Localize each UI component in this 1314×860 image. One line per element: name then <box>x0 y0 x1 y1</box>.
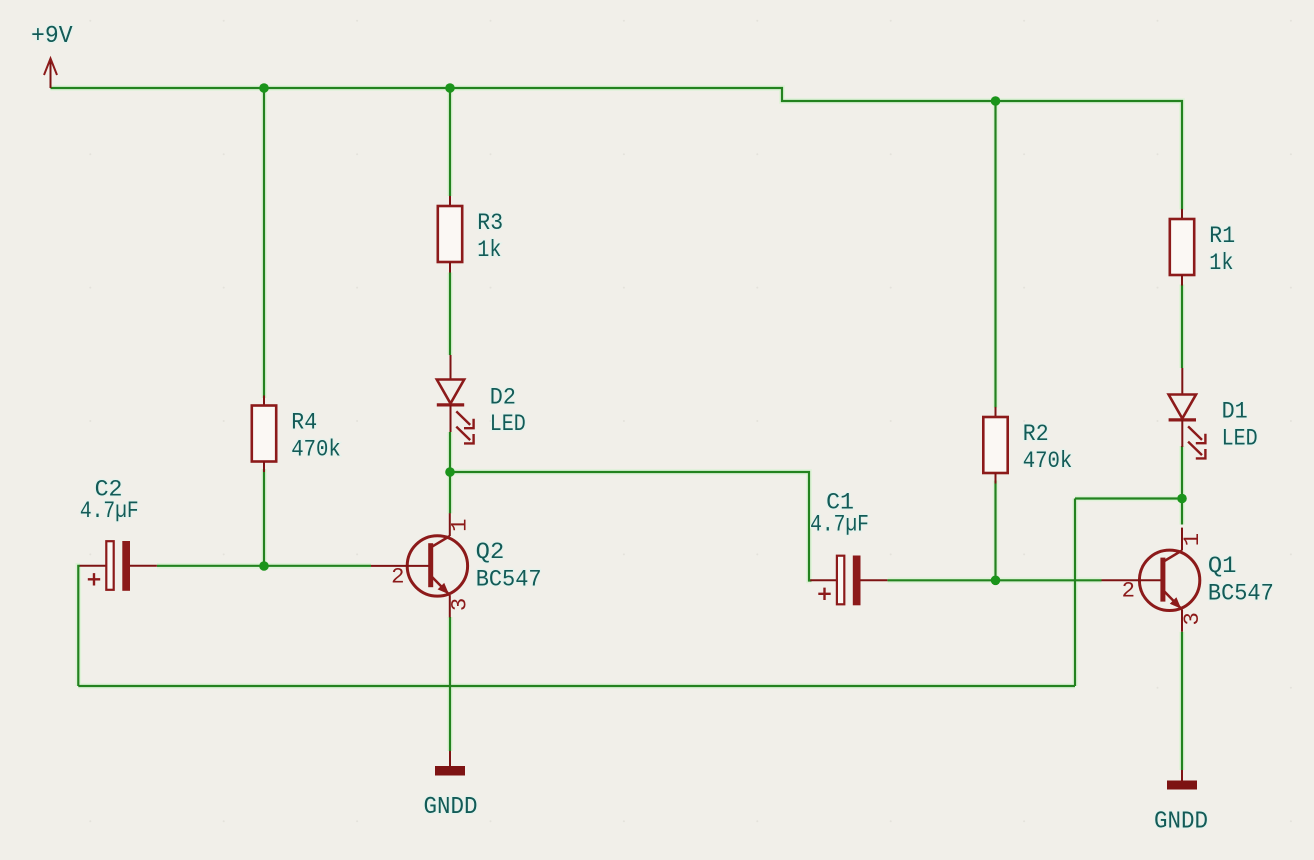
svg-text:BC547: BC547 <box>476 566 542 593</box>
junction Q2 base node <box>259 561 269 571</box>
wire R2 to Q1 base node <box>994 481 996 581</box>
junction VCC/R3 <box>445 83 455 93</box>
capacitor C1 (polarized) <box>810 489 887 605</box>
capacitor C2 (polarized) <box>80 477 157 591</box>
resistor R4 <box>252 396 341 473</box>
wire R3 to D2 <box>449 273 451 356</box>
wire VCC to R4 <box>263 88 265 398</box>
svg-text:3: 3 <box>1179 612 1205 625</box>
svg-text:LED: LED <box>490 411 526 438</box>
svg-text:GNDD: GNDD <box>1154 809 1208 836</box>
svg-text:+9V: +9V <box>31 23 73 50</box>
svg-text:470k: 470k <box>1023 448 1073 475</box>
svg-text:R3: R3 <box>477 210 503 237</box>
svg-text:LED: LED <box>1222 425 1258 452</box>
wire VCC to R3 <box>449 88 451 196</box>
LED D1 <box>1169 368 1258 458</box>
LED D2 <box>437 355 526 443</box>
wire C1 to Q1 base <box>888 579 1102 581</box>
svg-text:4.7µF: 4.7µF <box>810 511 869 538</box>
wire Q2 emitter to ground <box>449 617 451 751</box>
wire bottom feedback <box>78 685 1075 687</box>
wire R1 to D1 <box>1181 285 1183 369</box>
svg-text:GNDD: GNDD <box>424 794 478 821</box>
resistor R3 <box>438 196 503 273</box>
svg-text:R1: R1 <box>1209 223 1235 250</box>
junction Q2 collector node <box>445 467 455 477</box>
ground GNDD left <box>424 751 478 821</box>
svg-text:2: 2 <box>1122 578 1135 604</box>
wire D2 to Q2 collector node <box>449 432 451 513</box>
svg-text:2: 2 <box>391 563 404 589</box>
svg-text:1k: 1k <box>477 237 501 264</box>
svg-text:470k: 470k <box>291 437 341 464</box>
wire Q2 collector node to C1 <box>450 472 812 581</box>
wire C2 left plate down <box>78 566 80 686</box>
svg-text:1k: 1k <box>1209 250 1233 277</box>
wire VCC to R2 <box>994 101 996 408</box>
junction VCC/R4 <box>259 83 269 93</box>
power +9V <box>31 23 73 88</box>
wire C2 to Q2 base <box>157 565 371 567</box>
resistor R1 <box>1170 209 1235 286</box>
svg-text:4.7µF: 4.7µF <box>80 498 139 525</box>
svg-text:R4: R4 <box>291 410 317 437</box>
svg-text:D1: D1 <box>1222 399 1248 426</box>
svg-text:1: 1 <box>447 519 473 532</box>
junction Q1 base node <box>991 576 1001 586</box>
svg-text:D2: D2 <box>490 384 516 411</box>
svg-text:1: 1 <box>1179 533 1205 546</box>
resistor R2 <box>983 407 1072 484</box>
wire VCC rail top <box>51 88 1183 210</box>
wire R4 to Q2 base node <box>263 469 265 566</box>
svg-text:3: 3 <box>447 598 473 611</box>
svg-text:BC547: BC547 <box>1208 581 1274 608</box>
wire glow underlay <box>51 88 1183 770</box>
junction VCC/R2 <box>991 96 1001 106</box>
wire feedback to Q1 collector node <box>1075 497 1182 499</box>
transistor Q2 (NPN BC547) <box>371 513 542 617</box>
transistor Q1 (NPN BC547) <box>1102 528 1274 632</box>
wire feedback up <box>1074 499 1076 687</box>
svg-text:Q2: Q2 <box>476 539 505 566</box>
svg-text:R2: R2 <box>1023 421 1049 448</box>
wire Q1 emitter to ground <box>1181 632 1183 770</box>
junction Q1 collector node <box>1177 494 1187 504</box>
svg-text:Q1: Q1 <box>1208 553 1237 580</box>
ground GNDD right <box>1154 770 1208 836</box>
wire D1 to Q1 collector <box>1181 446 1183 525</box>
